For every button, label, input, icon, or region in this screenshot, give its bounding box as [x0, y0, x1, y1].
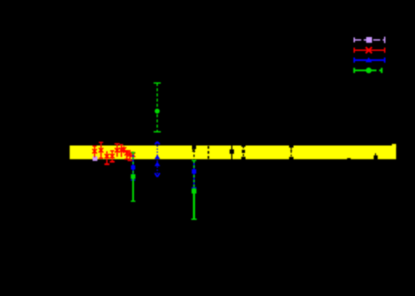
red measurement 9 x=132.9 (under green bar): [131, 152, 136, 161]
average point marker (yellow bump at right end of band): [392, 144, 396, 148]
legend entry 3: blue errorbar with triangle: [354, 57, 385, 63]
legend entry 2: red errorbar with X: [354, 47, 385, 53]
black measurement: square + dashed bar at x=194: [192, 141, 196, 164]
blue square marker at x=133.1: [131, 165, 135, 169]
world-average yellow band: [70, 146, 396, 160]
red measurement 4 x=112.2: [110, 151, 115, 162]
legend entry 1: violet dashed errorbar with square: [354, 37, 385, 43]
red measurement 5 x=117.1: [115, 144, 120, 157]
blue square marker at x=194: [192, 169, 196, 173]
legend entry 4: green errorbar with circle: [354, 68, 382, 73]
red measurement 8 x=129.9: [128, 150, 133, 161]
blue bar at x=133.1: [131, 155, 136, 180]
red measurement 1 x=94.6: [92, 146, 97, 157]
red measurement 7 x=126.8: [125, 151, 130, 159]
red measurement 6b x=123.9: [122, 146, 127, 153]
green bar at x=194: [191, 161, 196, 220]
blue point pair with arrows at x=157.3: [154, 142, 160, 177]
red measurement 6 x=121.4: [119, 145, 124, 157]
blue bar at x=194: [192, 162, 197, 188]
green square marker at x=133.1: [131, 174, 136, 179]
green square marker at x=194: [192, 189, 197, 194]
black measurement: solid bar + square at x=231.8: [230, 141, 234, 163]
purple square marker (violet point): [93, 156, 98, 161]
green circle marker of dashed point: [155, 109, 160, 114]
black notch marker at x=348.9 bottom edge of band: [347, 158, 351, 162]
black measurement: dashed bar with squares at x=291.2: [289, 143, 293, 161]
black square marker at x=375.7: [374, 153, 378, 159]
black measurement: dashed bar with 3 squares at x=243.4: [241, 142, 245, 162]
green dashed point high above band at x=157.2: [154, 83, 161, 132]
green bar at x=133.1: [131, 152, 136, 201]
red measurement 3 x=106.9: [104, 151, 109, 164]
red measurement 2 x=101.0: [99, 142, 104, 158]
black measurement: dashed bar at x=208.4: [207, 141, 209, 163]
